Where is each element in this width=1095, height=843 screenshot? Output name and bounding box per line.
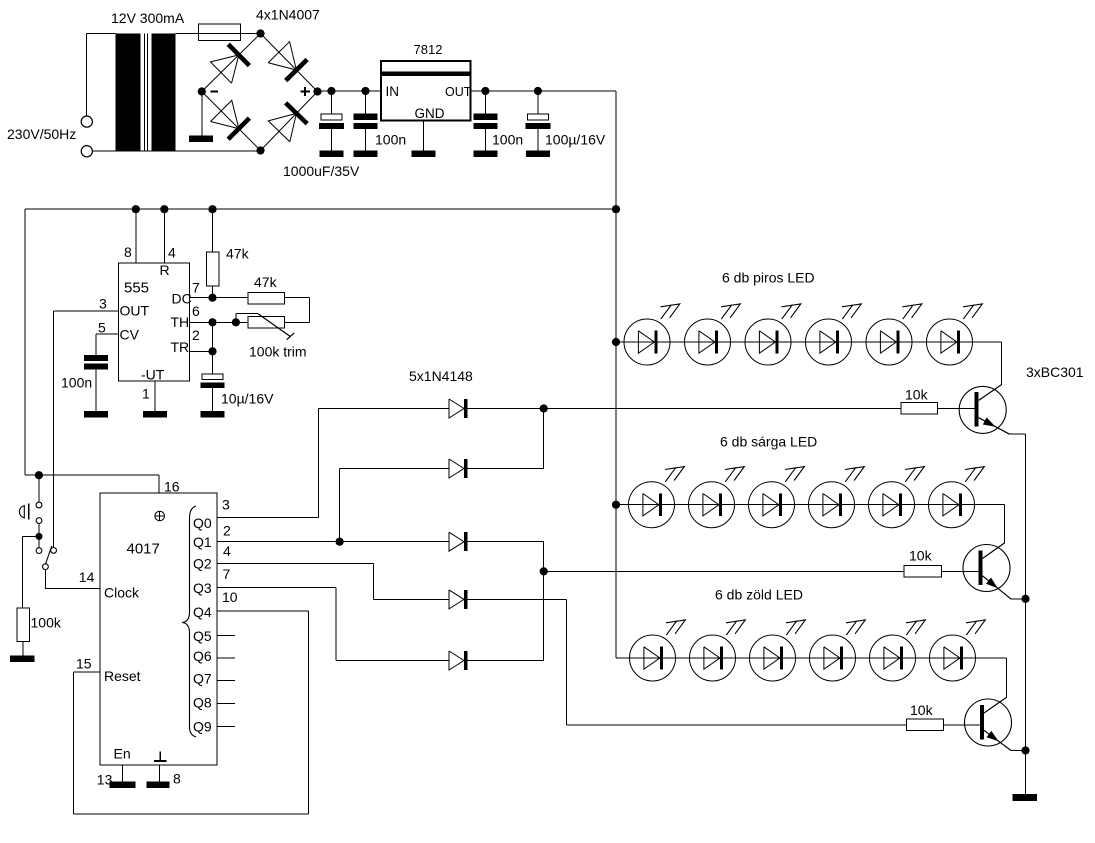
svg-text:OUT: OUT [120,303,150,319]
svg-text:100k trim: 100k trim [249,344,307,360]
svg-text:7: 7 [192,280,200,296]
svg-text:-UT: -UT [141,367,165,383]
svg-text:GND: GND [415,106,445,121]
svg-text:6 db piros LED: 6 db piros LED [722,270,815,286]
svg-text:Q2: Q2 [193,556,212,572]
svg-text:Q5: Q5 [193,628,212,644]
svg-text:10k: 10k [909,548,933,564]
svg-text:100k: 100k [31,615,62,631]
svg-text:230V/50Hz: 230V/50Hz [7,126,76,142]
svg-text:7812: 7812 [414,42,443,57]
svg-text:6 db zöld LED: 6 db zöld LED [715,587,803,603]
svg-text:100µ/16V: 100µ/16V [545,132,606,148]
svg-text:TR: TR [171,339,190,355]
svg-text:3xBC301: 3xBC301 [1026,364,1084,380]
svg-text:4x1N4007: 4x1N4007 [256,7,320,23]
svg-text:16: 16 [164,479,180,495]
svg-text:TH: TH [171,314,190,330]
svg-text:Q3: Q3 [193,580,212,596]
svg-text:555: 555 [124,280,149,297]
svg-text:Q9: Q9 [193,719,212,735]
svg-text:Q8: Q8 [193,695,212,711]
svg-text:Reset: Reset [104,668,141,684]
svg-text:CV: CV [120,327,140,343]
svg-text:Q0: Q0 [193,515,212,531]
svg-text:Clock: Clock [104,585,140,601]
svg-text:4: 4 [168,245,176,261]
svg-text:12V 300mA: 12V 300mA [111,10,185,26]
svg-text:100n: 100n [492,132,523,148]
svg-text:100n: 100n [61,375,92,391]
svg-text:8: 8 [173,771,181,787]
svg-text:10k: 10k [905,387,929,403]
svg-text:OUT: OUT [445,85,472,99]
svg-text:DC: DC [172,291,192,307]
svg-text:Q4: Q4 [193,604,212,620]
svg-text:14: 14 [79,569,95,585]
svg-text:47k: 47k [226,246,250,262]
svg-text:6 db sárga LED: 6 db sárga LED [720,434,817,450]
svg-text:6: 6 [192,303,200,319]
svg-text:4017: 4017 [127,541,160,558]
svg-text:15: 15 [76,656,92,672]
svg-text:5: 5 [98,320,106,336]
svg-text:IN: IN [386,84,400,99]
svg-text:R: R [160,262,170,278]
svg-text:1: 1 [142,386,150,402]
svg-text:10k: 10k [910,702,934,718]
svg-text:1000uF/35V: 1000uF/35V [283,163,360,179]
svg-text:3: 3 [99,296,107,312]
svg-text:Q6: Q6 [193,648,212,664]
svg-text:Q1: Q1 [193,534,212,550]
svg-text:3: 3 [222,497,230,513]
svg-text:10: 10 [222,589,238,605]
svg-text:7: 7 [223,566,231,582]
svg-text:10µ/16V: 10µ/16V [221,391,274,407]
svg-text:13: 13 [97,772,113,788]
svg-text:2: 2 [223,523,231,539]
svg-text:100n: 100n [375,132,406,148]
svg-text:8: 8 [124,244,132,260]
svg-text:2: 2 [192,327,200,343]
svg-text:En: En [114,746,131,762]
svg-text:5x1N4148: 5x1N4148 [409,368,473,384]
svg-text:4: 4 [223,543,231,559]
svg-text:47k: 47k [254,274,278,290]
svg-text:Q7: Q7 [193,671,212,687]
